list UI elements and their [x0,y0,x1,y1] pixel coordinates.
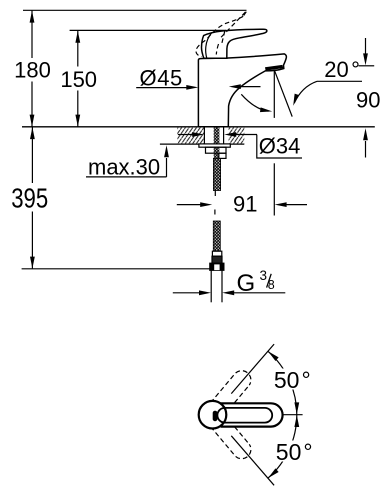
D34 arrow right [235,134,257,136]
washer under deck [199,144,230,147]
50deg ray upper [231,344,274,394]
bottom reference line (hose end level) [22,268,210,270]
dimension 91: right arrow [286,204,308,206]
handle pivot front edge [206,33,212,59]
handle lever [201,29,266,58]
plan view handle mark [213,411,218,422]
flexible hose segment 2 [213,221,220,251]
svg-text:150: 150 [60,67,97,92]
plan view pivot circle [199,401,227,429]
50deg ray lower [231,436,274,486]
svg-text:91: 91 [233,192,257,217]
D45 opposing left-pointing arrow [239,86,261,88]
hose fitting body [212,256,222,263]
max.30 up arrow [166,158,168,177]
dimension 180 line [30,11,35,127]
water jet 20 deg slant line [275,71,293,117]
shank through deck: outer tube lines [203,128,205,144]
spout outlet vertical line lower segment [273,163,275,215]
deck top surface line [22,126,375,128]
hose hex nut [210,263,224,270]
dimension text 50deg upper [272,369,311,390]
hose taper line [214,191,216,197]
supply tube [210,270,212,302]
G3/8 arrow right with leader [233,292,285,294]
svg-text:Ø45: Ø45 [140,65,183,90]
svg-text:50°: 50° [274,367,311,393]
aerator at spout tip [265,65,283,71]
svg-text:50°: 50° [276,439,313,465]
plan view inner handle stadium [217,408,272,423]
50deg arc upper [268,351,297,414]
deck hatching right [229,128,245,144]
20 deg arc left with arrowhead [241,94,268,111]
mounting nut [206,147,227,153]
dashed handle position +50deg (upper) [206,371,251,421]
50deg arc lower [268,415,297,478]
svg-text:180: 180 [14,58,51,83]
dashed raised handle outline [196,12,246,57]
dimension 91: left arrow [177,204,202,206]
D34 label box [257,135,302,158]
hose fitting collar [212,251,221,256]
hose centerline bit [214,210,216,215]
dimension 150 line [75,31,80,127]
max.30 underline [86,176,167,178]
dimension text 50deg lower [273,441,313,462]
spout outlet vertical reference line [273,71,275,118]
flexible hose segment 1 [213,158,220,190]
svg-text:3: 3 [260,268,268,283]
plan view outer stadium [221,403,283,426]
faucet body and spout [198,54,286,127]
extension line top (handle raised tip level) [23,9,247,11]
90 bottom arrow (up) [365,141,367,158]
dashed handle position -50deg (lower) [206,409,251,459]
nut step [219,153,226,158]
svg-text:Ø34: Ø34 [259,134,301,159]
white mask of plan outline [199,401,283,429]
threaded stud through deck [214,127,220,158]
20 deg label leader arc with arrowhead [294,81,317,103]
20deg underline [317,80,362,82]
svg-text:20°: 20° [324,57,360,82]
G3/8 arrow left [173,292,201,294]
D34 arrow left [178,134,194,136]
plan centerline right [283,414,303,416]
svg-text:395: 395 [11,183,48,214]
D45 leader and right-pointing arrow [136,87,188,89]
90 top reference line [359,65,375,67]
svg-text:G: G [237,270,256,297]
deck hatching left [177,128,204,144]
extension line lever level [70,29,226,31]
deck bottom line [160,143,244,145]
svg-text:max.30: max.30 [88,155,160,180]
thread label G 3/8 [237,268,275,297]
fraction slash [267,274,272,288]
90 top arrow (down) [365,38,367,54]
svg-text:90: 90 [356,87,380,112]
dimension 395 line [30,127,35,269]
